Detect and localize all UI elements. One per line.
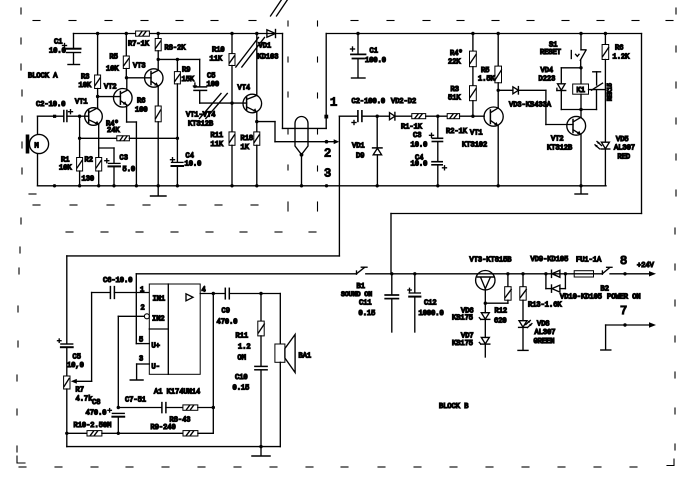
diode VD9-KD105 <box>531 256 569 277</box>
svg-text:U+: U+ <box>152 343 160 351</box>
svg-text:1K: 1K <box>241 144 250 152</box>
svg-text:AL307: AL307 <box>535 329 556 337</box>
svg-text:R1: R1 <box>61 157 69 165</box>
svg-text:BLOCK A: BLOCK A <box>28 73 58 81</box>
resistor R3 10K <box>79 32 101 108</box>
capacitor C4 10.0 (block A) <box>171 153 202 186</box>
cable oval <box>295 117 308 186</box>
svg-text:R7-1K: R7-1K <box>128 41 150 49</box>
svg-text:C7-51: C7-51 <box>125 397 146 405</box>
svg-text:C12: C12 <box>424 300 437 308</box>
relay contact K1.1 <box>589 72 614 110</box>
resistor R5 1.5K (block B) <box>478 32 502 108</box>
svg-text:10.0: 10.0 <box>411 161 428 169</box>
svg-text:R5: R5 <box>481 67 489 75</box>
resistor R18 1K (block A) <box>241 122 260 186</box>
svg-text:5.0: 5.0 <box>123 166 136 174</box>
wire: amp bottom rail <box>67 445 280 448</box>
resistor R8-43 <box>170 405 216 425</box>
switch S1 RESET <box>540 32 586 68</box>
resistor R12 620 <box>485 272 511 325</box>
svg-text:VD5: VD5 <box>616 136 629 144</box>
svg-text:VT3: VT3 <box>133 63 146 71</box>
svg-text:KT3102: KT3102 <box>462 142 487 150</box>
svg-text:R2-1K: R2-1K <box>446 128 468 136</box>
terminal 8 +24V <box>620 254 655 275</box>
resistor R6 1.2K (block B) <box>602 32 630 142</box>
transistor VT3-KT815B <box>470 257 512 313</box>
LED VD8 AL307 GREEN <box>518 320 556 350</box>
svg-text:VT1: VT1 <box>75 99 88 107</box>
microphone M <box>26 116 49 186</box>
transistor VT2 KT312B (block B) <box>547 110 586 186</box>
svg-text:24K: 24K <box>107 127 120 135</box>
svg-text:C5: C5 <box>73 354 81 362</box>
wire VT2 base / VT1 collector node <box>98 96 121 98</box>
transistor VT2 (block A) <box>104 78 136 186</box>
switch B1 SOUND ON <box>341 267 375 318</box>
svg-text:REK15: REK15 <box>607 83 614 101</box>
pin 3 ground <box>130 364 149 380</box>
svg-text:1.2: 1.2 <box>238 344 251 352</box>
wire: lower supply rail <box>136 271 656 276</box>
svg-text:R4*: R4* <box>450 50 463 58</box>
annotation slashes VT1-VT4 <box>200 0 288 119</box>
diode VD4 D223 <box>539 66 597 111</box>
svg-text:3: 3 <box>324 167 331 181</box>
LED VD5 AL307 RED <box>595 136 635 186</box>
capacitor C3 5.0 (block A) <box>99 148 135 186</box>
svg-text:AL307: AL307 <box>614 145 635 153</box>
pin 4 output <box>200 292 224 408</box>
svg-text:POWER ON: POWER ON <box>607 294 641 302</box>
capacitors C3/C4 10.0 (block B) <box>411 115 447 186</box>
svg-text:10K: 10K <box>59 165 72 173</box>
capacitor C2-10.0 (block A) <box>36 101 79 122</box>
diode VD1 KD103 (series in rail) <box>258 30 279 62</box>
svg-text:0.15: 0.15 <box>233 385 250 393</box>
resistor R9 15K <box>174 58 195 162</box>
svg-text:D223: D223 <box>539 76 556 84</box>
svg-text:R6: R6 <box>615 45 623 53</box>
resistor R7-1K (series in rail) <box>128 31 150 49</box>
svg-text:R3: R3 <box>81 74 89 82</box>
resistor R10 11K (block A) <box>210 32 236 105</box>
svg-text:130: 130 <box>82 176 95 184</box>
pin 2 inverting input <box>118 314 149 408</box>
capacitor C9 470.0 <box>217 288 281 326</box>
resistor R2 130 <box>82 148 102 186</box>
transistor VT1 KT3102 (block B) <box>462 107 503 186</box>
svg-text:VD10-KD105: VD10-KD105 <box>560 294 602 302</box>
svg-text:C6-10.0: C6-10.0 <box>103 277 132 285</box>
svg-text:BA1: BA1 <box>299 353 312 361</box>
svg-text:VD3-KS433A: VD3-KS433A <box>509 102 552 110</box>
diode VD10-KD105 (parallel loop) <box>546 274 602 302</box>
svg-text:10K: 10K <box>79 82 92 90</box>
svg-text:R7: R7 <box>76 387 84 395</box>
svg-text:R8-2K: R8-2K <box>165 45 187 53</box>
svg-text:R10: R10 <box>212 47 225 55</box>
svg-text:1: 1 <box>140 287 144 295</box>
svg-text:470.0: 470.0 <box>86 410 107 418</box>
svg-text:R12: R12 <box>495 308 508 316</box>
capacitor C5 10,0 (amp) <box>58 256 84 376</box>
svg-text:8: 8 <box>620 254 627 268</box>
svg-text:620: 620 <box>494 318 507 326</box>
svg-text:+24V: +24V <box>637 262 655 270</box>
svg-text:RED: RED <box>618 154 631 162</box>
terminal 7 <box>601 304 656 350</box>
svg-text:KT312B: KT312B <box>188 121 213 129</box>
svg-text:VD1: VD1 <box>352 143 365 151</box>
wire VT4 emitter to terminal 2 <box>257 122 339 145</box>
zener VD6 KS175 <box>452 308 490 338</box>
svg-text:VD4: VD4 <box>541 67 554 75</box>
ground (block A) <box>151 186 167 196</box>
svg-text:VT2: VT2 <box>104 84 117 92</box>
svg-text:2: 2 <box>324 147 331 161</box>
svg-text:KD103: KD103 <box>258 54 279 62</box>
svg-text:RESET: RESET <box>540 49 561 57</box>
resistors R4* 22K / R3 51K (block B) <box>448 32 476 118</box>
svg-text:OM: OM <box>238 355 246 363</box>
svg-text:2: 2 <box>141 305 145 313</box>
wire node R8/R9/C5 <box>158 58 200 60</box>
svg-text:B1: B1 <box>357 283 365 291</box>
potentiometer R7 4.7k <box>64 376 93 447</box>
svg-text:10.0: 10.0 <box>185 161 202 169</box>
transistor VT3 (block A) <box>126 59 163 106</box>
svg-text:GREEN: GREEN <box>534 338 555 346</box>
resistor R1 10K <box>59 115 83 186</box>
svg-text:VT1-VT4: VT1-VT4 <box>186 112 215 120</box>
svg-text:10K: 10K <box>106 66 119 74</box>
svg-text:VD8: VD8 <box>537 321 550 329</box>
svg-text:100.0: 100.0 <box>365 57 386 65</box>
ground (block B) <box>575 186 588 194</box>
svg-text:C4: C4 <box>186 153 194 161</box>
svg-text:C5: C5 <box>207 73 215 81</box>
ground (amp) <box>252 447 270 456</box>
svg-text:10,0: 10,0 <box>67 362 84 370</box>
speaker BA1 <box>275 294 311 447</box>
svg-text:IN2: IN2 <box>152 316 165 324</box>
svg-text:C2-100.0: C2-100.0 <box>352 98 386 106</box>
svg-text:1.5K: 1.5K <box>478 76 496 84</box>
svg-text:R10-2.50M: R10-2.50M <box>74 422 112 430</box>
wire: mid ground rail <box>38 184 607 187</box>
svg-text:BLOCK B: BLOCK B <box>439 403 468 411</box>
resistor R2-1K (block B) <box>446 114 484 136</box>
svg-text:470.0: 470.0 <box>217 319 238 327</box>
fuse FU1-1A <box>574 257 602 278</box>
transistor VT1 (block A) <box>75 99 102 149</box>
svg-text:VT1: VT1 <box>470 130 483 138</box>
svg-text:R18: R18 <box>241 135 254 143</box>
svg-text:3: 3 <box>139 356 143 364</box>
resistor R6 100 (block A) <box>135 98 161 186</box>
capacitor C12 1000.0 <box>408 272 444 332</box>
resistor R11 1.2 OM <box>236 294 265 367</box>
resistor R8-2K <box>155 32 186 61</box>
svg-text:M: M <box>35 143 39 151</box>
wire: Block A top supply rail <box>74 33 283 35</box>
capacitor C5 100 (block A) <box>193 59 232 103</box>
svg-text:R2: R2 <box>85 157 93 165</box>
svg-text:R3: R3 <box>451 86 459 94</box>
svg-text:C1: C1 <box>370 48 378 56</box>
diode VD2-D2 <box>376 98 417 120</box>
svg-text:1: 1 <box>330 96 337 110</box>
svg-text:C1: C1 <box>54 39 62 47</box>
capacitor C8 470.0 <box>86 399 125 435</box>
op-amp IC A1 K174UN14 <box>139 284 206 397</box>
svg-text:4.7k: 4.7k <box>76 396 93 404</box>
wire VD1 output loop to terminal 1 column <box>283 34 329 129</box>
resistor R5 10K (block A) <box>106 32 129 80</box>
svg-text:22K: 22K <box>448 59 461 67</box>
capacitor C7-51 <box>118 397 183 413</box>
svg-text:R9: R9 <box>182 67 190 75</box>
resistor R11 11K (block A) <box>211 103 236 186</box>
svg-text:R11: R11 <box>236 333 249 341</box>
svg-text:C10: C10 <box>235 374 248 382</box>
capacitor C10 0.15 <box>233 366 268 446</box>
svg-text:C3: C3 <box>120 155 128 163</box>
svg-text:A1 K174UN14: A1 K174UN14 <box>154 389 200 397</box>
transistor VT4 (block A) <box>232 32 262 124</box>
zener VD7 KS175 <box>452 333 490 358</box>
svg-text:KS175: KS175 <box>452 315 473 323</box>
resistor R9-240 <box>118 408 213 437</box>
svg-text:B2: B2 <box>601 286 609 294</box>
capacitor C1 (block A) 10.0 <box>49 34 81 65</box>
svg-text:VT4: VT4 <box>238 85 251 93</box>
wire: signal line to volume pot <box>67 255 340 257</box>
pin 5 supply hook <box>136 274 149 344</box>
svg-text:51K: 51K <box>448 95 461 103</box>
svg-text:U-: U- <box>152 364 160 372</box>
svg-text:FU1-1A: FU1-1A <box>576 257 602 265</box>
svg-text:VT3-KT815B: VT3-KT815B <box>470 257 512 265</box>
diode VD1 D9 (block B detector) <box>352 116 382 186</box>
svg-text:C9: C9 <box>222 308 230 316</box>
switch B2 POWER ON <box>601 267 641 301</box>
svg-text:1.2K: 1.2K <box>613 54 631 62</box>
diode VD3-KS433A <box>498 87 573 125</box>
svg-text:11K: 11K <box>210 56 223 64</box>
svg-text:SOUND ON: SOUND ON <box>341 291 372 298</box>
svg-text:VD2-D2: VD2-D2 <box>391 98 416 106</box>
wire: block B input row <box>339 116 357 256</box>
svg-text:D9: D9 <box>356 153 364 161</box>
resistor R10-2.50M <box>65 422 118 436</box>
capacitor C11 0.15 <box>385 272 398 332</box>
svg-text:11K: 11K <box>211 141 224 149</box>
capacitor C6-10.0 <box>92 277 150 381</box>
svg-text:KT312B: KT312B <box>547 145 572 153</box>
svg-text:KS175: KS175 <box>452 340 473 348</box>
resistor R1-1K (block B) <box>401 114 447 132</box>
svg-text:15K: 15K <box>182 76 195 84</box>
capacitor C2-100.0 (block B) <box>352 98 390 125</box>
wire: Block B top rail and frame <box>326 34 641 274</box>
svg-text:10.0: 10.0 <box>411 142 428 150</box>
svg-text:100: 100 <box>207 81 220 89</box>
svg-text:R6: R6 <box>137 98 145 106</box>
resistor R4* 24K row <box>80 121 178 141</box>
svg-text:R5: R5 <box>110 54 118 62</box>
svg-text:IN1: IN1 <box>153 296 166 304</box>
svg-text:C2-10.0: C2-10.0 <box>36 101 65 109</box>
svg-text:7: 7 <box>620 304 627 318</box>
svg-text:R13-1.6K: R13-1.6K <box>528 302 562 310</box>
capacitor C1 100.0 (block B) <box>351 32 387 78</box>
svg-text:C3: C3 <box>413 132 421 140</box>
svg-text:C8: C8 <box>92 399 100 407</box>
svg-text:VD9-KD105: VD9-KD105 <box>531 256 569 264</box>
svg-text:R9-240: R9-240 <box>151 424 176 432</box>
svg-text:1000.0: 1000.0 <box>419 310 444 318</box>
svg-text:C11: C11 <box>359 300 372 308</box>
svg-text:10.0: 10.0 <box>49 48 66 56</box>
svg-text:VT2: VT2 <box>551 136 564 144</box>
svg-text:R11: R11 <box>211 132 224 140</box>
svg-text:0.15: 0.15 <box>359 310 376 318</box>
relay coil K1 <box>573 68 589 110</box>
svg-text:R1-1K: R1-1K <box>401 124 423 132</box>
svg-text:100: 100 <box>135 107 148 115</box>
resistor R13-1.6K <box>520 272 563 320</box>
